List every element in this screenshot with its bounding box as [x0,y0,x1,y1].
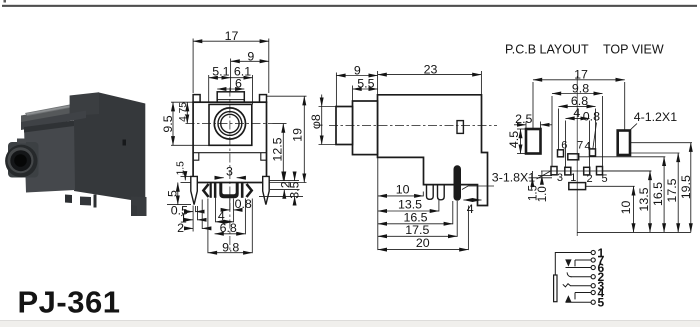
side barrel tip [336,107,353,145]
pcb ext lines right [630,142,692,144]
pcb pad 4 [590,149,596,156]
dim 9.8 pcb [552,93,603,95]
dim 6.8 [215,233,246,235]
pcb big right pad [618,131,630,156]
FRONT VIEW [186,88,273,254]
dim 4 side [463,199,481,201]
dim 5.1 [209,77,231,79]
photo: bracket hole detail [123,140,127,146]
dim 17 pcb [533,79,625,81]
side black contact pin [454,165,462,200]
svg-text:10: 10 [619,201,633,215]
photo: top rail front face [21,104,86,125]
dim 9.8 [208,252,252,254]
dim 20 [378,249,469,251]
svg-text:9.8: 9.8 [572,81,589,95]
dim 2 right [283,173,285,181]
dim 4.5 pcb [520,129,522,154]
dim 23 [378,74,482,76]
leader 0.8 pcb [593,123,597,149]
side dim texts [309,62,535,250]
dim 19 [303,96,305,182]
pcb pad 3 [551,167,557,175]
dim 9.5 [172,102,174,145]
pcb pad numbers [557,140,608,186]
photo: barrel rings [5,145,37,177]
dim phi8 [321,95,323,107]
pcb pad 2 [584,167,590,175]
front step line [193,152,266,154]
svg-text:2: 2 [177,221,184,235]
SCHEMATIC [554,250,596,304]
leader 3-1.8X1 left [462,186,494,190]
front body outline [193,102,266,182]
photo: connector rear/side face [5,92,146,216]
side body outline [378,95,488,206]
svg-text:P.C.B LAYOUT: P.C.B LAYOUT [505,43,589,57]
svg-text:17.5: 17.5 [405,223,429,237]
svg-text:6: 6 [235,77,242,91]
svg-text:4: 4 [585,141,591,153]
svg-text:9: 9 [247,50,254,64]
svg-text:5: 5 [598,296,605,310]
dim 5 left [177,183,179,205]
svg-text:2: 2 [587,173,593,185]
front horizontal center line [186,123,273,125]
svg-text:0.8: 0.8 [583,110,600,124]
dim 17 [193,40,269,42]
pcb big left pad [526,129,541,154]
photo: barrel flange plate [8,142,39,178]
svg-text:1: 1 [570,172,576,184]
wire pin 3 [570,285,591,287]
dim 6.1 [231,77,253,79]
pcb dimensions [514,80,692,233]
photo: barrel hole [14,154,27,167]
front pins black bars [210,183,244,199]
dim 17.5 side [378,235,457,237]
dim 0.8 [222,209,230,211]
front jack circle inner [221,114,239,132]
dim 1 [187,219,193,221]
front pin chevron right [247,184,252,197]
front pin chevron left [203,184,208,197]
dim 17.5 pcb [677,153,679,233]
wire pin 4 [575,292,591,294]
svg-text:2.5: 2.5 [515,112,532,126]
dim 0.5 [187,211,194,213]
svg-text:13.5: 13.5 [398,198,422,212]
svg-text:13.5: 13.5 [637,187,651,211]
side white pin 1 [427,185,434,200]
side barrel flange [353,101,378,155]
photo: bracket leg bottom right [131,197,147,217]
svg-text:16.5: 16.5 [651,182,665,206]
side center line [329,124,497,126]
svg-text:φ8: φ8 [309,114,323,129]
wire pin 1 [555,253,591,275]
svg-text:4.5: 4.5 [507,131,521,148]
front jack circle ring [218,112,242,136]
dim 13.5 pcb [649,171,651,233]
svg-text:19: 19 [291,128,305,142]
dim 9 side [336,75,377,77]
svg-text:1.0: 1.0 [537,186,549,202]
svg-text:PJ-361: PJ-361 [18,285,121,320]
pcb pad 7 [568,154,579,160]
bottom bar [0,321,700,327]
svg-text:5.1: 5.1 [212,65,229,79]
svg-text:6: 6 [561,140,567,152]
dim 16.5 pcb [663,157,665,233]
dim 1.5 [184,172,186,181]
photo: bottom pins [65,195,72,204]
dim 5.5 [353,88,378,90]
front step notch left [193,153,199,161]
pcb pad 5 [597,167,603,175]
dim 6 [217,88,244,90]
SIDE VIEW [329,95,497,206]
dim 2 left [186,227,193,229]
corner mark [4,0,7,3]
dim 6.8 pcb [559,105,596,107]
schematic pin numbers [598,246,605,310]
svg-text:TOP VIEW: TOP VIEW [603,43,664,57]
svg-text:9.8: 9.8 [222,240,239,254]
dim 4 bottom [216,221,234,223]
wire pin 5 [566,301,592,303]
switch triangle up [565,295,571,302]
svg-text:9.5: 9.5 [161,115,175,132]
svg-text:3.5: 3.5 [287,181,301,198]
dim 10 side [378,195,424,197]
svg-text:10: 10 [396,182,410,196]
pcb dim bottom line [577,231,691,233]
dim 13.5 side [378,210,439,212]
front jack housing square [209,104,252,145]
svg-text:19.5: 19.5 [679,175,693,199]
svg-text:17: 17 [225,29,239,43]
svg-text:4.75: 4.75 [178,102,189,122]
photo: back plate top tab [70,92,99,116]
top rule line [2,5,697,7]
front right ear [260,95,267,103]
side hole detail [457,121,463,134]
front left mounting leg [191,176,198,204]
svg-text:12.5: 12.5 [271,137,285,161]
svg-text:9: 9 [354,63,361,77]
svg-text:20: 20 [416,236,430,250]
front top tab [217,92,244,102]
photo: body front face [24,121,75,193]
pcb texts [507,67,693,214]
leader 4-1.2X1 [629,124,638,132]
front dimensions [167,39,307,254]
dim 3.5 [294,173,296,181]
svg-text:4: 4 [467,202,474,216]
dim 9 [231,60,269,62]
front right mounting leg [263,176,270,204]
dim 4.75 [186,102,188,123]
side dimensions [319,71,552,250]
dim 19.5 pcb [690,143,692,233]
svg-text:0.8: 0.8 [235,197,252,211]
svg-text:5: 5 [601,173,607,185]
pcb center horizontal line [541,170,652,172]
pcb pad 1 [565,167,571,175]
svg-text:23: 23 [424,62,438,76]
switch triangle down [565,259,571,266]
dim 1.0 pcb [541,171,543,176]
side white pin 2 [438,185,445,200]
front step notch right [261,153,267,161]
svg-text:7: 7 [577,140,583,152]
dim 12.5 [282,124,284,181]
svg-text:17.5: 17.5 [665,178,679,202]
schematic sleeve bar [554,275,557,302]
wire pin 7 [575,259,591,261]
leader 3-1.8X1 right [537,171,552,180]
photo: top rail top face [25,102,88,116]
terminal circles [591,250,595,304]
pcb center vertical line [576,76,578,236]
front dim texts [161,29,305,255]
dim 16.5 side [378,223,453,225]
wire pin 6 [566,267,592,269]
svg-text:4: 4 [573,106,580,120]
svg-text:5.5: 5.5 [357,77,374,91]
wire pin 2 [571,276,592,278]
front vertical center line [229,88,231,254]
PCB LAYOUT drawing [526,76,652,236]
dim 3 [216,177,224,179]
front left ear [193,95,200,103]
svg-text:6.8: 6.8 [220,221,237,235]
svg-text:3: 3 [226,164,233,178]
svg-text:5: 5 [165,190,179,197]
front jack circle outer [214,108,245,139]
svg-text:17: 17 [574,67,588,81]
dim 2.5 pcb [514,124,526,126]
front center U channel [219,183,238,199]
svg-text:1.5: 1.5 [176,161,187,175]
dim 4 pcb [566,117,590,119]
svg-text:3: 3 [557,172,563,184]
pcb pad 6 [558,150,564,157]
pcb sleeve pad [569,183,586,190]
dim 10 pcb [633,186,635,232]
dim 1.5 pcb [531,171,533,178]
svg-text:4-1.2X1: 4-1.2X1 [634,110,678,124]
